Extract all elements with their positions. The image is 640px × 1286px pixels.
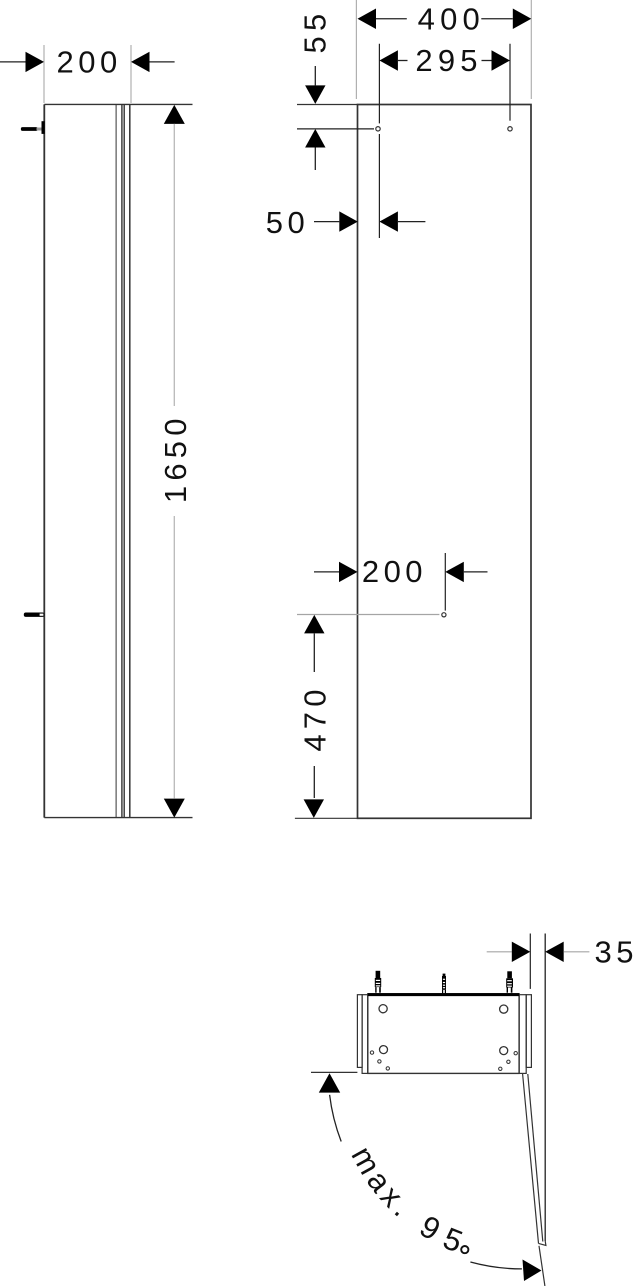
arc arrowhead end (right) [523, 1260, 542, 1282]
screws [375, 971, 513, 994]
svg-text:200: 200 [362, 554, 427, 589]
svg-text:50: 50 [266, 205, 309, 240]
dim 55 [297, 9, 374, 170]
degree ring of 95 deg label [461, 1246, 468, 1253]
arc arrowhead start (up) [319, 1073, 340, 1092]
side view outline [43, 104, 45, 817]
open door [523, 1074, 546, 1286]
left outer strip [357, 995, 362, 1068]
screw S1 (left) [376, 971, 381, 978]
front view outline [358, 105, 532, 819]
screw S2 (middle) [443, 974, 446, 977]
hole front middle [442, 613, 446, 617]
dim 200 (top left) [0, 45, 175, 103]
svg-text:95: 95 [414, 1209, 477, 1263]
dim 200 (middle) [314, 553, 488, 611]
dim 35 [487, 934, 638, 1242]
dim 400 [356, 0, 531, 99]
dim 295 [379, 43, 510, 123]
top edge extension left [297, 104, 358, 106]
svg-text:max.: max. [344, 1140, 421, 1226]
hole front top-right [508, 127, 512, 131]
svg-text:200: 200 [57, 45, 122, 80]
body [368, 994, 519, 1074]
right inner strip [519, 995, 526, 1074]
svg-text:1650: 1650 [158, 413, 193, 503]
thick top edge of body [368, 993, 519, 996]
dim 470 [298, 615, 333, 818]
dim 1650 [158, 105, 193, 818]
line for arc arrow [311, 1071, 357, 1073]
bottom wall pin [24, 613, 45, 617]
svg-text:55: 55 [297, 9, 332, 54]
arc max 95 [330, 1095, 522, 1269]
screw S3 (right) [507, 971, 512, 978]
svg-text:35: 35 [595, 935, 638, 970]
right outer strip [526, 995, 531, 1068]
svg-text:400: 400 [418, 1, 485, 36]
dim 50 [266, 134, 426, 240]
svg-text:295: 295 [415, 43, 482, 78]
door lines side view [115, 104, 117, 817]
left inner strip [362, 995, 368, 1074]
bottom edge extension left [295, 817, 358, 819]
holes top view [379, 1005, 508, 1055]
gray line through lower hole [297, 614, 439, 616]
top wall pin [21, 121, 45, 134]
hole front top-left [376, 127, 380, 131]
svg-text:470: 470 [298, 684, 333, 751]
